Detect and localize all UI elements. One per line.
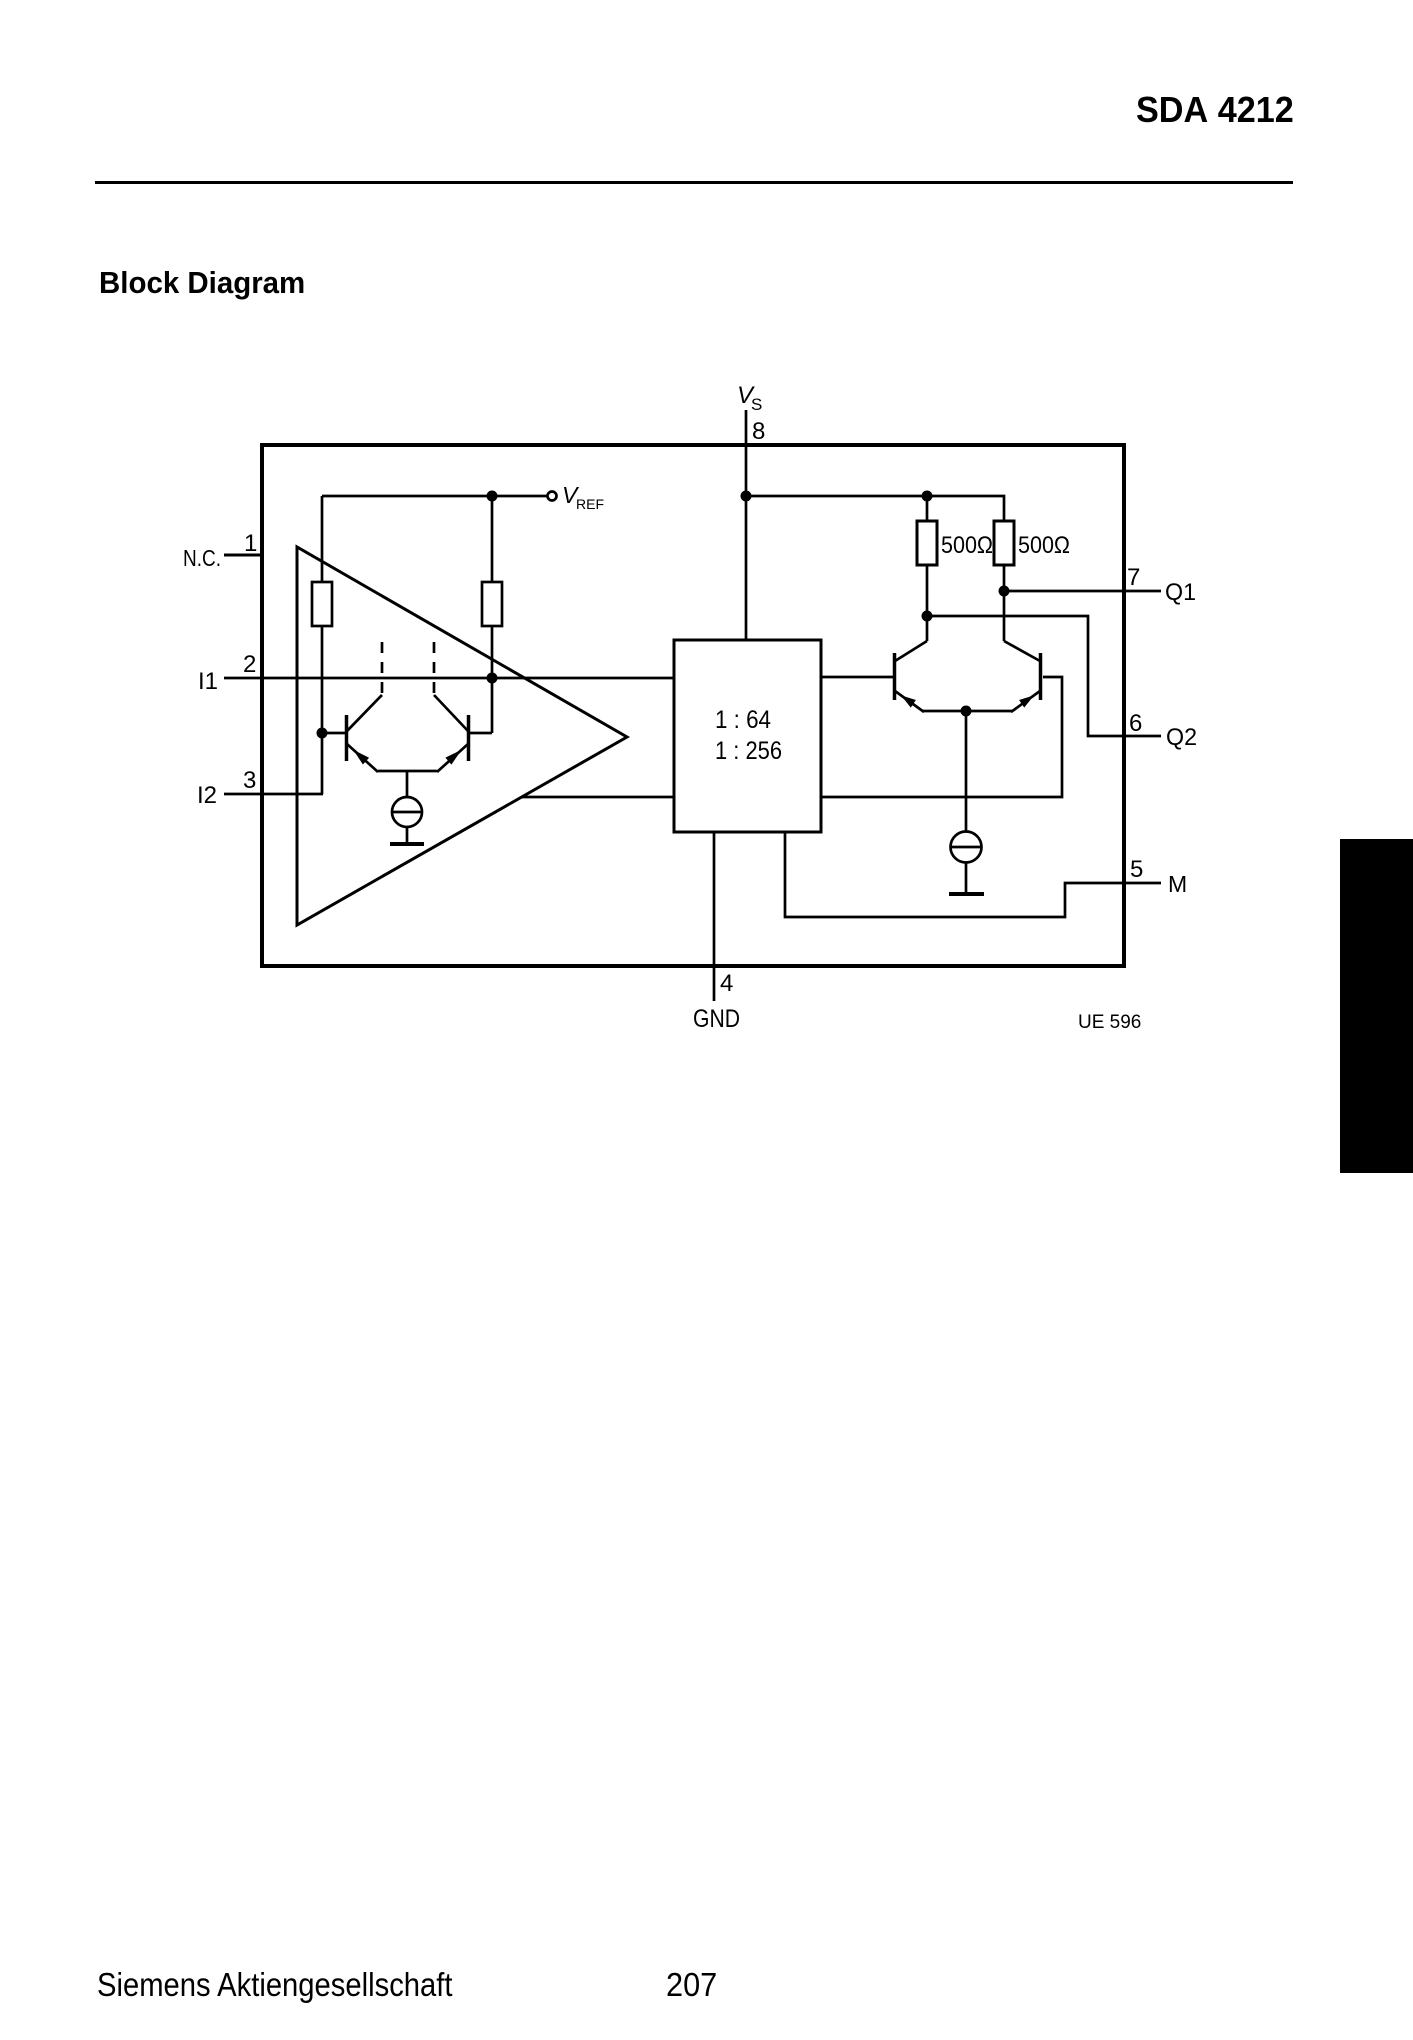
ground left (390, 842, 424, 846)
wire R1 to I2 line (321, 626, 324, 794)
transistor Q1a (347, 695, 383, 772)
header title SDA 4212 (1136, 89, 1294, 131)
transistor Q2a (895, 641, 928, 712)
node dot base left (317, 728, 328, 739)
header rule (95, 181, 1293, 184)
pin 6 / Q2 wire (927, 616, 1161, 736)
pin 5 / M wire (785, 832, 1161, 917)
svg-text:5: 5 (1130, 856, 1143, 883)
divider block 1:64 1:256 (674, 640, 821, 832)
svg-text:Q1: Q1 (1165, 579, 1196, 606)
svg-text:1 : 256: 1 : 256 (715, 737, 782, 765)
ground right (949, 892, 984, 896)
heading Block Diagram (99, 265, 305, 301)
svg-text:Q2: Q2 (1166, 724, 1197, 751)
svg-text:S: S (751, 395, 762, 414)
footer company (97, 1966, 453, 2004)
transistor Q1b (434, 695, 469, 772)
node dot VREF junction (487, 491, 498, 502)
base wire Q2b (821, 677, 1062, 797)
wire R4 to collector node (1003, 565, 1006, 641)
svg-text:3: 3 (243, 767, 256, 794)
sidebar tab (1340, 839, 1413, 1173)
svg-text:4: 4 (720, 970, 733, 997)
svg-text:GND: GND (693, 1005, 740, 1033)
resistor R3 500 ohm (917, 521, 937, 565)
wire VREF node to resistor R2 (491, 496, 494, 582)
current source CS2 (950, 832, 982, 863)
pin 2 / I1 wire (224, 677, 674, 680)
transistor Q2b (1004, 641, 1041, 712)
wire VREF to resistor R1 (321, 496, 324, 582)
current source CS1 (392, 797, 422, 827)
svg-text:UE 596: UE 596 (1078, 1012, 1141, 1033)
emitter rail left pair (378, 770, 437, 773)
node dot Q1 net (999, 586, 1010, 597)
svg-text:8: 8 (752, 418, 765, 445)
svg-text:500Ω: 500Ω (1018, 532, 1070, 559)
op-amp U1 triangle (297, 547, 627, 925)
svg-text:I2: I2 (197, 782, 217, 809)
svg-text:M: M (1168, 871, 1187, 897)
VREF terminal circle (548, 492, 557, 501)
svg-text:1 : 64: 1 : 64 (715, 706, 771, 734)
pin 1 stub (224, 554, 262, 557)
VREF wire (322, 495, 547, 498)
svg-text:6: 6 (1129, 710, 1142, 737)
wire I1 node to Q1b base (491, 678, 494, 733)
node dot Q2 net (922, 611, 933, 622)
dashed collector lead left (381, 642, 384, 695)
base wire Q1b (469, 732, 492, 735)
node dot on I1 wire (487, 673, 498, 684)
op-amp lower output wire (521, 796, 674, 799)
VS rail (746, 496, 1004, 521)
pin 4 / GND wire (713, 832, 716, 1001)
wire R2 to I1 node (491, 626, 494, 678)
footer page number (666, 1966, 717, 2004)
resistor R4 500 ohm (994, 521, 1014, 565)
resistor R1 (312, 582, 332, 626)
tail wire to current source CS2 (965, 711, 968, 832)
svg-text:N.C.: N.C. (183, 545, 221, 571)
tail wire to current source (406, 771, 409, 797)
svg-text:7: 7 (1127, 564, 1140, 591)
pin 8 / VS wire (745, 410, 748, 640)
svg-text:2: 2 (243, 651, 256, 678)
wire R3 to collector node (926, 565, 929, 641)
wire CS2 to ground (965, 862, 968, 892)
base wire Q1a (322, 732, 345, 735)
wire rail to R3 (926, 496, 929, 521)
pin 7 / Q1 wire (1004, 590, 1161, 593)
IC outer boundary box (262, 445, 1124, 966)
pin 3 / I2 wire (224, 793, 323, 796)
node dot VS rail right (922, 491, 933, 502)
wire CS1 to ground (406, 827, 409, 843)
emitter rail right pair (923, 710, 1012, 713)
svg-text:1: 1 (244, 530, 257, 557)
svg-text:500Ω: 500Ω (941, 532, 993, 559)
dashed collector lead right (433, 642, 436, 695)
base wire Q2a (821, 676, 893, 679)
node dot emitter rail (961, 706, 972, 717)
resistor R2 (482, 582, 502, 626)
svg-text:I1: I1 (198, 668, 218, 695)
svg-text:REF: REF (576, 496, 604, 512)
node dot VS rail left (741, 491, 752, 502)
